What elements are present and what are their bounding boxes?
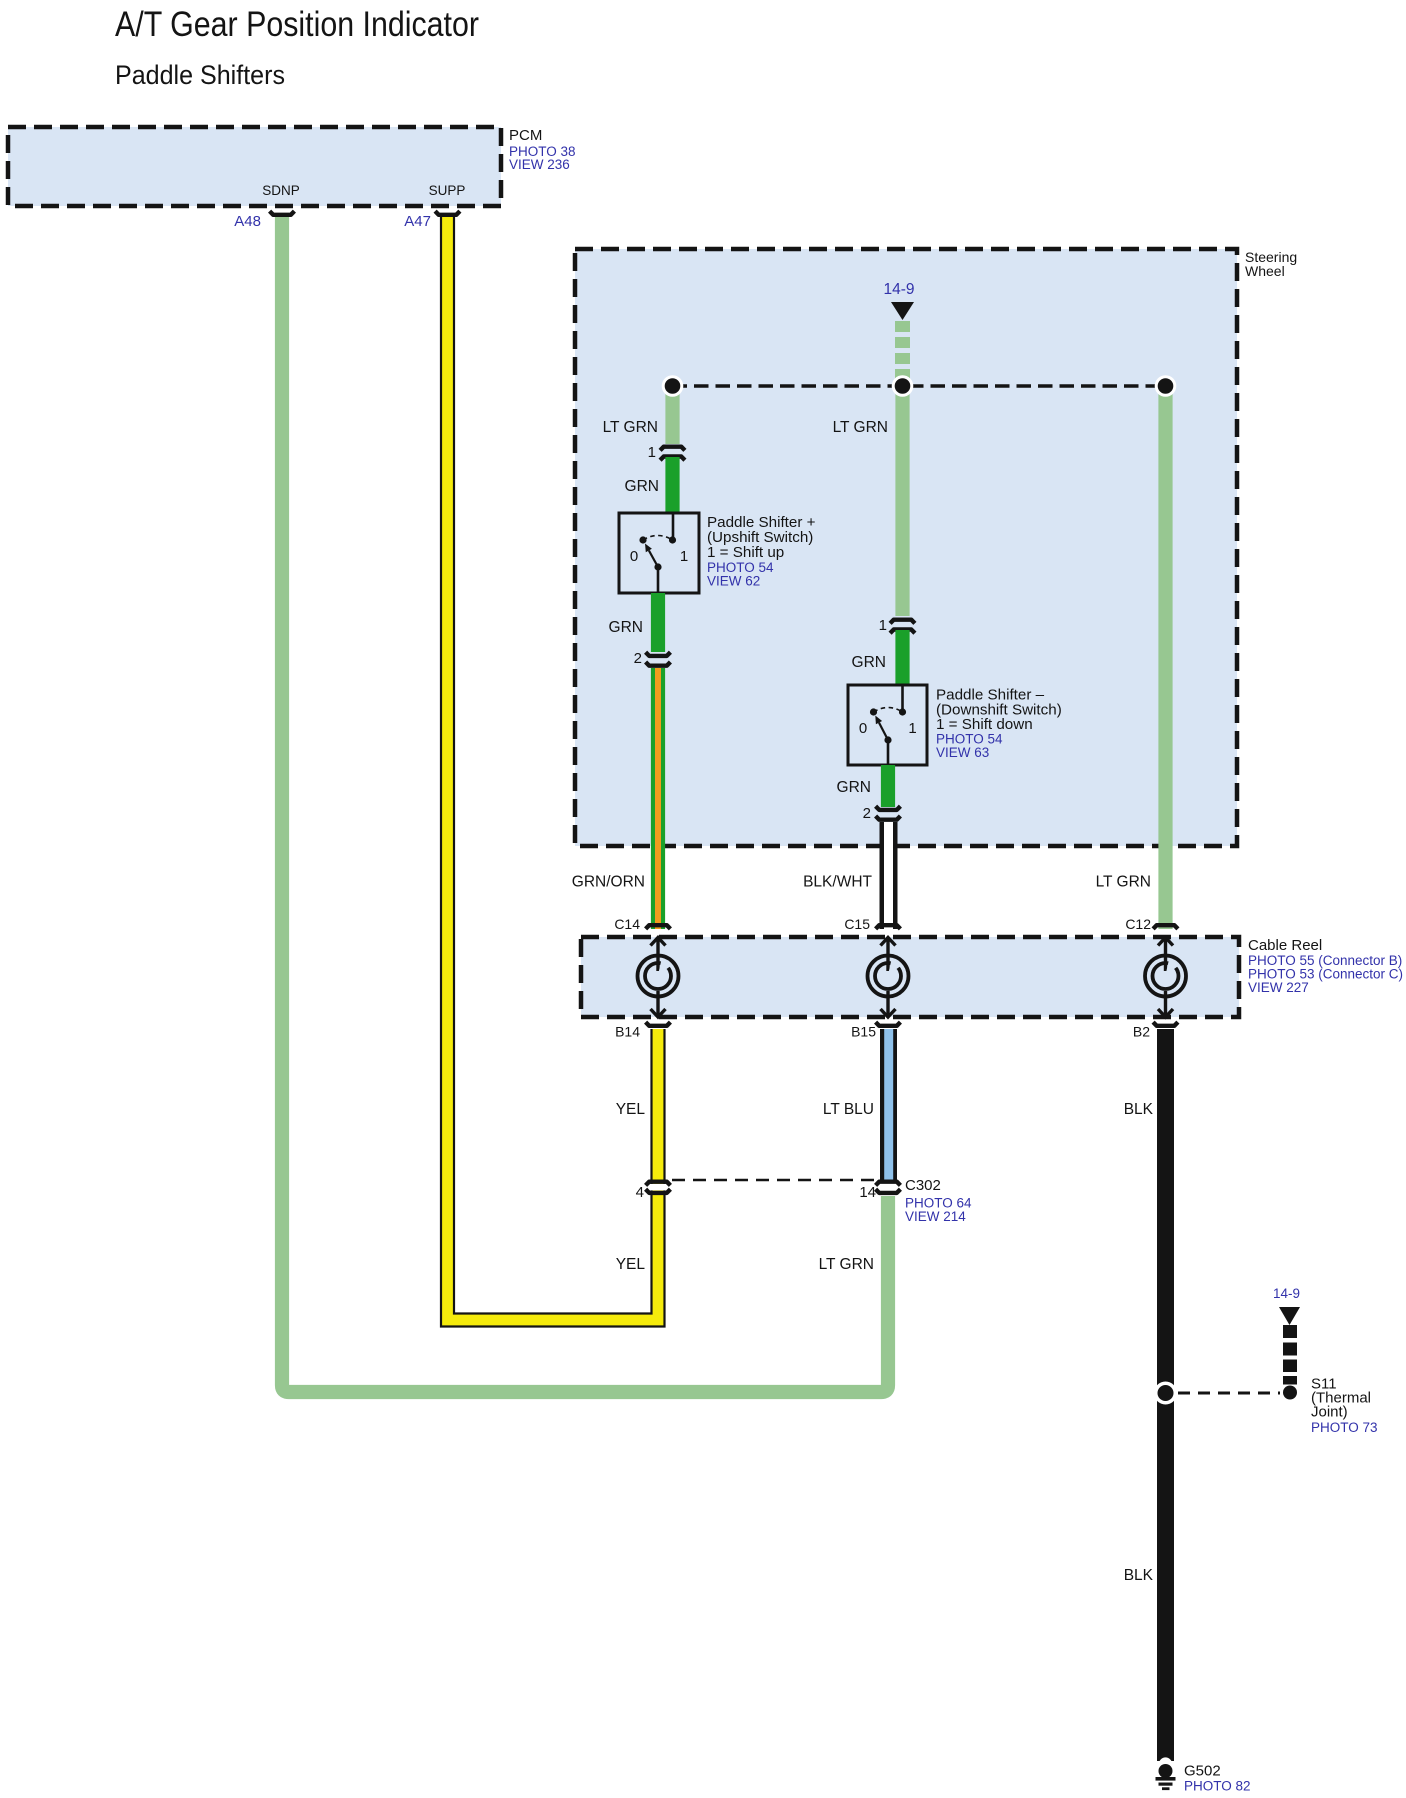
svg-text:VIEW 227: VIEW 227 bbox=[1248, 980, 1309, 995]
svg-text:PHOTO 82: PHOTO 82 bbox=[1184, 1779, 1251, 1794]
svg-text:Joint): Joint) bbox=[1311, 1404, 1348, 1421]
ground dot bbox=[1159, 1764, 1173, 1778]
connector pin B15 (half-shell below cable reel) bbox=[876, 1022, 901, 1026]
svg-text:1: 1 bbox=[680, 548, 688, 565]
wire: LT GRN right branch (junction down to cable reel C12) bbox=[1158, 386, 1172, 929]
svg-text:VIEW 63: VIEW 63 bbox=[936, 745, 989, 760]
connector pin C15 (half-shell at cable reel) bbox=[876, 925, 901, 929]
svg-text:B2: B2 bbox=[1133, 1024, 1150, 1040]
svg-text:GRN: GRN bbox=[609, 619, 643, 636]
wire: LT GRN downshift branch (junction down to connector 1) bbox=[895, 386, 909, 616]
cable reel coil B14/C14 bbox=[638, 937, 679, 1017]
svg-text:LT GRN: LT GRN bbox=[833, 419, 888, 436]
in-line connector 1 of upshift switch bbox=[648, 444, 685, 461]
switch U2 terminal 1 lead bbox=[901, 685, 904, 711]
wire: LT BLU from B15 down to C302 pin 14 bbox=[880, 1029, 897, 1181]
svg-text:GRN: GRN bbox=[625, 478, 659, 495]
svg-text:1 = Shift down: 1 = Shift down bbox=[936, 716, 1033, 733]
wire: SUPP YEL long run (PCM A47 down, across, up to cable reel B14) bbox=[448, 216, 659, 1320]
connector C302 cavity 14 bbox=[876, 1182, 901, 1186]
switch U1 common pivot bbox=[654, 563, 661, 570]
svg-text:A48: A48 bbox=[234, 213, 261, 230]
svg-text:VIEW 62: VIEW 62 bbox=[707, 574, 760, 589]
switch U1 contact 1 bbox=[669, 536, 676, 543]
wire: LT GRN upshift branch (junction to connector 1) bbox=[665, 386, 679, 444]
junction node middle bbox=[892, 375, 914, 397]
in-line connector 1 of downshift switch bbox=[879, 617, 915, 634]
svg-text:1: 1 bbox=[648, 444, 656, 461]
wire: BLK from B2 down to G502 bbox=[1157, 1029, 1174, 1761]
wire: GRN below downshift switch bbox=[881, 765, 895, 807]
svg-text:SDNP: SDNP bbox=[262, 183, 300, 198]
svg-text:LT GRN: LT GRN bbox=[819, 1256, 874, 1273]
switch U2 common pivot bbox=[884, 736, 891, 743]
svg-text:Paddle Shifters: Paddle Shifters bbox=[115, 60, 285, 90]
svg-text:C14: C14 bbox=[614, 916, 640, 932]
svg-text:C15: C15 bbox=[844, 916, 870, 932]
svg-text:0: 0 bbox=[859, 720, 867, 737]
svg-text:SUPP: SUPP bbox=[429, 183, 466, 198]
steering wheel dashed enclosure bbox=[575, 249, 1237, 846]
svg-text:VIEW 214: VIEW 214 bbox=[905, 1209, 966, 1224]
wire: GRN into downshift switch bbox=[895, 630, 909, 685]
svg-text:YEL: YEL bbox=[616, 1256, 646, 1273]
PCM control module box bbox=[8, 127, 576, 206]
C302 tie line bbox=[672, 1179, 876, 1181]
harness source arrow 14-9 into steering wheel bbox=[883, 281, 914, 320]
splice node S11 bbox=[1154, 1382, 1177, 1405]
wire: dashed LT GRN feed from 14-9 to junction bbox=[895, 321, 910, 380]
svg-text:C12: C12 bbox=[1125, 916, 1151, 932]
downshift switch caption bbox=[936, 687, 1062, 761]
switch U2 contact 0 bbox=[870, 708, 877, 715]
switch U1 terminal 1 lead bbox=[672, 513, 675, 539]
svg-text:GRN: GRN bbox=[852, 654, 886, 671]
connector pin A47 (half-shell at PCM) bbox=[435, 211, 460, 215]
off-page triangle bbox=[1279, 1307, 1300, 1325]
svg-text:YEL: YEL bbox=[616, 1101, 646, 1118]
Cable Reel box bbox=[581, 937, 1403, 1017]
svg-text:0: 0 bbox=[630, 548, 638, 565]
switch U2 contact 1 bbox=[899, 708, 906, 715]
svg-text:B14: B14 bbox=[615, 1024, 640, 1040]
svg-text:BLK: BLK bbox=[1124, 1567, 1154, 1584]
svg-text:1 = Shift up: 1 = Shift up bbox=[707, 544, 784, 561]
splice S11 on BLK wire bbox=[1154, 1376, 1378, 1436]
junction node left bbox=[662, 375, 684, 397]
wire: GRN below upshift switch bbox=[651, 593, 665, 652]
svg-text:VIEW 236: VIEW 236 bbox=[509, 157, 570, 172]
svg-text:G502: G502 bbox=[1184, 1763, 1221, 1780]
connector pin C12 (half-shell at cable reel) bbox=[1153, 925, 1178, 929]
in-line connector 2 of upshift switch bbox=[634, 650, 671, 667]
upshift switch caption bbox=[707, 514, 816, 589]
svg-text:LT GRN: LT GRN bbox=[1096, 874, 1151, 891]
svg-text:LT BLU: LT BLU bbox=[823, 1101, 874, 1118]
connector pin B14 (half-shell below cable reel) bbox=[646, 1022, 671, 1026]
svg-text:2: 2 bbox=[863, 805, 871, 822]
svg-text:LT GRN: LT GRN bbox=[603, 419, 658, 436]
wire: GRN into upshift switch bbox=[665, 457, 679, 513]
node dot bbox=[1283, 1386, 1297, 1400]
svg-text:C302: C302 bbox=[905, 1177, 941, 1194]
wire: SDNP LT GRN long run (PCM A48 down, across, up to C302 pin 14) bbox=[282, 216, 888, 1392]
cable reel dashed enclosure bbox=[581, 937, 1239, 1017]
svg-text:4: 4 bbox=[636, 1184, 644, 1201]
wire: GRN/ORN from connector 2 down to cable reel C14 bbox=[651, 668, 665, 929]
S11 tie line bbox=[1178, 1392, 1280, 1395]
switch U1 arm bbox=[649, 551, 658, 568]
svg-text:Wheel: Wheel bbox=[1245, 263, 1285, 279]
downshift switch U2 (Paddle Shifter -) bbox=[848, 685, 927, 765]
switch U1 contact 0 bbox=[639, 536, 646, 543]
svg-text:2: 2 bbox=[634, 650, 642, 667]
svg-text:B15: B15 bbox=[851, 1024, 876, 1040]
svg-text:Cable Reel: Cable Reel bbox=[1248, 937, 1322, 954]
switch U2 common lead bbox=[887, 740, 890, 765]
switch U2 arm bbox=[879, 723, 888, 740]
connector C302 cavity 4 bbox=[647, 1184, 669, 1190]
off-page triangle bbox=[891, 302, 914, 320]
switch U1 common lead bbox=[657, 567, 660, 593]
C302 in-line connector row bbox=[636, 1177, 972, 1224]
switch U1 body bbox=[619, 513, 699, 593]
switch U2 body bbox=[848, 685, 927, 765]
cable reel coil B15/C15 bbox=[868, 937, 909, 1017]
upshift switch U1 (Paddle Shifter +) bbox=[619, 513, 699, 593]
svg-text:14-9: 14-9 bbox=[883, 281, 914, 298]
svg-text:A47: A47 bbox=[404, 213, 431, 230]
switch U2 travel arc bbox=[874, 708, 903, 713]
ground bars bbox=[1156, 1777, 1176, 1781]
harness destination arrow 14-9 at S11 bbox=[1273, 1286, 1300, 1400]
svg-text:BLK/WHT: BLK/WHT bbox=[803, 874, 872, 891]
svg-text:PHOTO 73: PHOTO 73 bbox=[1311, 1420, 1378, 1435]
svg-text:PCM: PCM bbox=[509, 127, 542, 144]
junction node right bbox=[1155, 375, 1177, 397]
cable reel coil B2/C12 bbox=[1145, 937, 1186, 1017]
svg-text:14: 14 bbox=[859, 1184, 876, 1201]
svg-text:GRN: GRN bbox=[837, 779, 871, 796]
ground terminal notch bbox=[1159, 1757, 1172, 1770]
connector pin A48 (half-shell at PCM) bbox=[270, 211, 295, 215]
PCM dashed enclosure bbox=[8, 127, 501, 206]
wire: BLK/WHT from connector 2 down to cable reel C15 bbox=[880, 822, 898, 929]
connector pin B2 (half-shell below cable reel) bbox=[1153, 1022, 1178, 1026]
svg-text:BLK: BLK bbox=[1124, 1101, 1154, 1118]
Steering Wheel box bbox=[575, 249, 1297, 846]
switch U1 travel arc bbox=[643, 536, 673, 541]
svg-text:14-9: 14-9 bbox=[1273, 1286, 1300, 1301]
connector pin C14 (half-shell at cable reel) bbox=[646, 925, 671, 929]
svg-text:A/T Gear Position Indicator: A/T Gear Position Indicator bbox=[115, 5, 479, 44]
svg-text:GRN/ORN: GRN/ORN bbox=[572, 874, 645, 891]
dashed bus wire linking the three branches inside steering wheel box bbox=[673, 384, 1166, 388]
ground G502 bbox=[1156, 1757, 1251, 1793]
in-line connector 2 of downshift switch bbox=[863, 805, 901, 822]
dashed feed wire bbox=[1283, 1325, 1297, 1338]
svg-text:1: 1 bbox=[908, 720, 916, 737]
svg-text:1: 1 bbox=[879, 617, 887, 634]
